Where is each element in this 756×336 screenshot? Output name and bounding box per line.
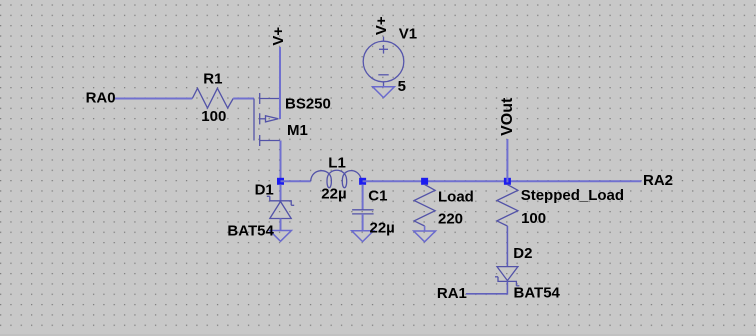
svg-text:V+: V+ bbox=[270, 27, 287, 46]
diode D1 (BAT54 freewheel) bbox=[280, 184, 282, 200]
svg-text:22µ: 22µ bbox=[321, 185, 346, 202]
ground below C1 bbox=[352, 231, 374, 242]
svg-text:220: 220 bbox=[438, 210, 463, 227]
svg-text:VOut: VOut bbox=[499, 97, 516, 136]
resistor R1 bbox=[192, 88, 233, 108]
svg-text:RA0: RA0 bbox=[86, 90, 116, 107]
svg-text:100: 100 bbox=[521, 210, 546, 227]
node C (Load) bbox=[421, 178, 428, 185]
resistor Stepped_Load bbox=[497, 185, 518, 227]
node A (switch node) bbox=[277, 178, 284, 185]
wire R1 to M1 gate bbox=[233, 98, 254, 100]
wire VOut label bbox=[506, 139, 508, 182]
transistor M1 (PMOS BS250) bbox=[254, 93, 280, 146]
wire V+ to M1 source bbox=[279, 47, 281, 99]
svg-text:100: 100 bbox=[201, 108, 226, 125]
svg-text:R1: R1 bbox=[203, 71, 222, 88]
wire node to L1 bbox=[281, 180, 311, 182]
svg-text:D2: D2 bbox=[513, 245, 532, 262]
wire Stepped_Load to D2 bbox=[506, 226, 508, 267]
svg-text:22µ: 22µ bbox=[370, 220, 395, 237]
wire D2 to RA1 bbox=[466, 281, 507, 293]
svg-text:C1: C1 bbox=[368, 188, 387, 205]
node B (L1/C1) bbox=[359, 178, 366, 185]
svg-text:RA1: RA1 bbox=[437, 285, 467, 302]
svg-text:D1: D1 bbox=[255, 182, 274, 199]
wire RA0 to R1 bbox=[115, 98, 193, 100]
diode D2 (BAT54) bbox=[495, 267, 519, 286]
inductor L1 bbox=[311, 170, 362, 187]
ground below D1 bbox=[270, 231, 292, 242]
wire M1 drain down bbox=[280, 141, 282, 183]
svg-text:BAT54: BAT54 bbox=[514, 285, 561, 302]
svg-text:V+: V+ bbox=[373, 16, 390, 35]
svg-text:5: 5 bbox=[398, 78, 406, 95]
svg-text:L1: L1 bbox=[328, 154, 346, 171]
wire M1 bulk tie bbox=[279, 99, 281, 120]
svg-text:Load: Load bbox=[438, 188, 474, 205]
ground below Load bbox=[414, 231, 436, 242]
ground below V1 bbox=[373, 87, 395, 98]
svg-text:BAT54: BAT54 bbox=[227, 223, 274, 240]
resistor Load bbox=[414, 185, 435, 227]
wire rail node B to RA2 bbox=[363, 180, 642, 182]
capacitor C1 bbox=[362, 184, 364, 209]
svg-text:V1: V1 bbox=[399, 26, 417, 43]
node D (VOut) bbox=[504, 178, 511, 185]
svg-text:Stepped_Load: Stepped_Load bbox=[521, 187, 624, 204]
svg-text:M1: M1 bbox=[287, 122, 308, 139]
svg-text:RA2: RA2 bbox=[643, 172, 673, 189]
voltage source V1 bbox=[363, 37, 404, 87]
svg-text:BS250: BS250 bbox=[285, 96, 331, 113]
